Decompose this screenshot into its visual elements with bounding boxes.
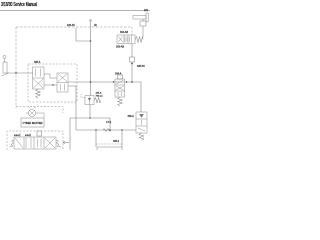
- svg-text:439-D: 439-D: [25, 135, 31, 137]
- solenoid valve 303-AB: [117, 35, 135, 44]
- wire from cylinder down: [142, 19, 144, 21]
- directional valve bottom row: [14, 137, 56, 149]
- steering wheel symbol left: [2, 55, 9, 76]
- wire branch down from node a: [95, 130, 97, 147]
- coupler box on wire: [140, 21, 146, 26]
- wire line y118: [70, 118, 110, 150]
- node main line right: [131, 81, 133, 83]
- cylinder 305-2: [97, 147, 122, 150]
- spring below valve 305-A: [36, 89, 41, 98]
- wire between valve blocks: [44, 74, 57, 78]
- spring below valve 304-A: [118, 97, 123, 106]
- svg-text:222: 222: [144, 9, 149, 12]
- wire steering unit sides: [26, 113, 44, 118]
- spring right of relief valve: [94, 98, 101, 104]
- node on border: [15, 72, 17, 74]
- solenoid atop valve 304-A: [118, 75, 123, 79]
- svg-text:105-A: 105-A: [96, 92, 102, 95]
- dashed box 305-A: [28, 64, 77, 102]
- relief valve 105-A: [85, 96, 94, 105]
- svg-text:439-D: 439-D: [14, 135, 20, 137]
- dashed enclosure border top: [16, 26, 132, 28]
- wire between valve blocks lower: [44, 84, 57, 86]
- pilot stub 1: [19, 133, 21, 137]
- check valve 305-PC: [130, 57, 135, 62]
- dashed box valve assembly bottom: [7, 131, 63, 150]
- wire 223 port L-branch: [76, 28, 91, 41]
- svg-text:304-AB: 304-AB: [120, 31, 128, 34]
- svg-text:306-A: 306-A: [128, 115, 135, 118]
- svg-text:CY-1: CY-1: [106, 121, 112, 124]
- svg-text:305-A: 305-A: [34, 61, 41, 64]
- svg-text:AV: AV: [94, 24, 97, 27]
- wire AV junction down to main line: [90, 41, 92, 96]
- valve 306-A: [136, 112, 147, 133]
- node y130 b: [109, 129, 111, 131]
- vent symbol above AV port: [89, 19, 91, 23]
- svg-text:700 psi: 700 psi: [96, 96, 104, 98]
- pilot line relief valve: [81, 94, 85, 98]
- valve 305-A left block: [33, 67, 45, 89]
- wire 305-PC down to main line: [131, 62, 133, 82]
- wire valve 303-AB down: [131, 44, 133, 57]
- spring below valve 306-A: [139, 133, 144, 141]
- dashed enclosure border right drop: [131, 27, 133, 35]
- svg-text:305-2: 305-2: [113, 140, 120, 143]
- wire relief valve down: [89, 105, 91, 119]
- wire branch down from node c: [121, 130, 123, 147]
- svg-text:CYBER MASTER: CYBER MASTER: [23, 121, 43, 125]
- wire branch y84 to down leg: [68, 86, 76, 130]
- label box CYBER MASTER: [21, 118, 44, 127]
- header rule: [0, 10, 150, 12]
- node main line at AV leg: [90, 81, 92, 83]
- wire AV port down to junction: [90, 23, 92, 41]
- valve 304-A: [115, 79, 125, 97]
- spring right of bottom valve: [56, 140, 61, 147]
- svg-text:303-AB: 303-AB: [116, 46, 124, 49]
- wire steering to border: [7, 72, 33, 74]
- pilot box on top of bottom valve: [37, 131, 42, 136]
- wire coupler to valve spring: [142, 26, 144, 37]
- node right of 304-A: [126, 81, 127, 82]
- svg-text:3/18/30 Service Manual: 3/18/30 Service Manual: [1, 2, 37, 8]
- pilot stub 2: [29, 133, 31, 137]
- node relief on y118: [89, 117, 91, 119]
- cylinder 222 top right: [133, 13, 148, 22]
- spring of valve 303-AB: [135, 37, 143, 43]
- node y130 a: [95, 129, 97, 131]
- dashed enclosure border left: [15, 27, 17, 108]
- node y130 c: [121, 129, 123, 131]
- dashed pilot over cylinder: [96, 143, 122, 145]
- steering unit circle: [28, 107, 35, 117]
- valve 305-A right block: [57, 73, 68, 92]
- wire main line y82: [68, 82, 141, 112]
- spring left of bottom valve: [10, 140, 15, 147]
- arrow port M right of box: [63, 141, 69, 144]
- svg-text:223-AV: 223-AV: [67, 24, 75, 27]
- node junction AV: [90, 40, 92, 42]
- node left of 304-A: [113, 81, 114, 82]
- svg-text:305-PC: 305-PC: [137, 65, 145, 68]
- flex hose CY-1: [103, 129, 111, 132]
- dashed box steering enclosure: [16, 107, 63, 114]
- wire line y130: [76, 129, 136, 131]
